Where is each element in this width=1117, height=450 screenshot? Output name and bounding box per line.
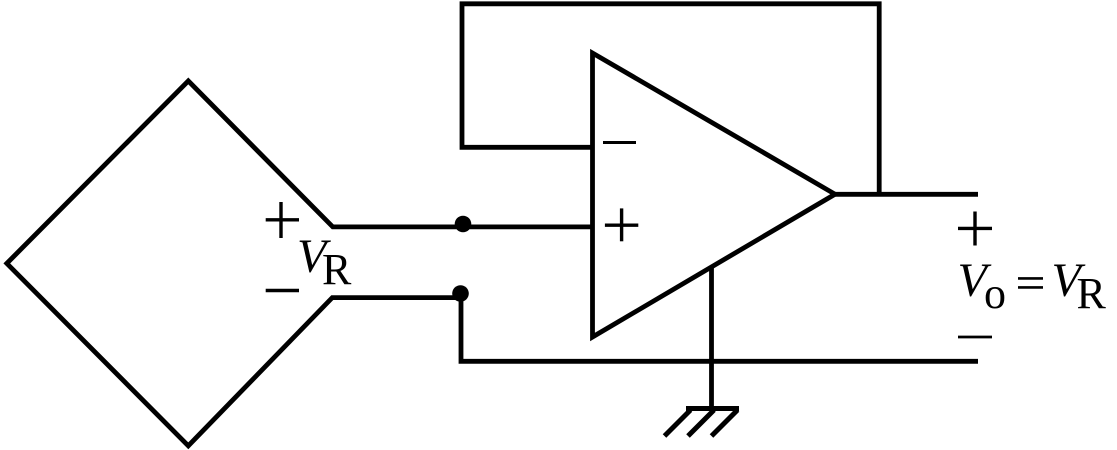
svg-text:R: R [1077,269,1107,318]
svg-text:R: R [322,245,352,294]
svg-text:o: o [984,269,1006,318]
